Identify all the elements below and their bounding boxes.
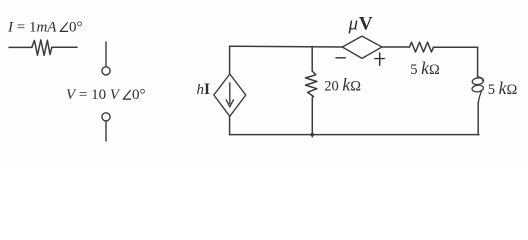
svg-text:V = 10 V: V = 10 V <box>66 87 121 103</box>
resistor 20k (middle, vertical zigzag) <box>306 71 317 98</box>
wire top mid segment <box>382 46 410 48</box>
wire bottom segment <box>230 134 479 136</box>
resistor (source figure, horizontal) <box>9 40 77 56</box>
wire left vertical upper <box>229 46 231 74</box>
wire right vertical lower <box>477 102 479 135</box>
label V = 10 V angle 0deg <box>66 87 146 103</box>
inductor 5k (right, loops) <box>472 77 484 102</box>
terminal lower (open circle) <box>102 113 110 141</box>
resistor zigzag <box>32 40 52 56</box>
svg-text:hI: hI <box>197 81 211 98</box>
junction dot <box>310 133 314 137</box>
wire right lead <box>52 46 77 48</box>
wire middle branch upper <box>311 46 313 71</box>
dependent current source hI (diamond with down arrow) <box>214 74 246 116</box>
wire right vertical upper <box>477 47 479 77</box>
wire left vertical lower <box>229 116 231 134</box>
terminal upper (open circle) <box>102 42 110 75</box>
plus sign <box>375 53 384 65</box>
wire left lead <box>9 46 32 48</box>
wire top-right segment <box>434 46 478 48</box>
svg-text:I = 1mA: I = 1mA <box>7 20 57 36</box>
minus sign <box>336 57 345 59</box>
svg-text:μV: μV <box>348 14 373 35</box>
svg-text:5 kΩ: 5 kΩ <box>488 78 518 98</box>
resistor 5k (top, horizontal) <box>410 42 434 52</box>
svg-text:0°: 0° <box>69 20 83 36</box>
wire top-left segment <box>230 45 343 48</box>
svg-text:0°: 0° <box>132 87 146 103</box>
wire middle branch lower <box>311 98 313 137</box>
svg-text:5 kΩ: 5 kΩ <box>410 58 440 78</box>
label I = 1mA angle 0deg <box>7 20 83 36</box>
dependent voltage source muV (diamond) <box>342 36 382 58</box>
svg-text:20 kΩ: 20 kΩ <box>324 75 361 95</box>
